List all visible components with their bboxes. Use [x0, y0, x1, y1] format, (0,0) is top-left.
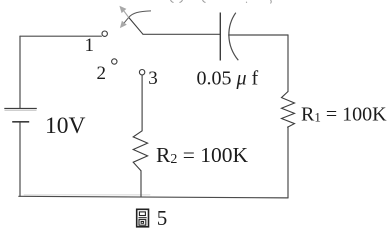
wire left vertical top [19, 36, 21, 108]
svg-text:5: 5 [157, 206, 168, 230]
switch rotation arc [124, 11, 151, 23]
battery B1 long plate (+) [4, 108, 37, 110]
terminal 3 [139, 70, 144, 75]
wire terminal3 down [141, 75, 143, 131]
resistor R1 zigzag [282, 92, 295, 128]
caption figure glyph (CJK tu) [137, 209, 149, 227]
wire bottom horizontal [19, 196, 288, 198]
wire top-left horizontal [20, 35, 101, 37]
cut-off text marks at top edge [171, 0, 272, 4]
svg-text:10V: 10V [45, 113, 86, 139]
svg-text:R1 = 100K: R1 = 100K [301, 104, 387, 126]
svg-text:3: 3 [148, 68, 158, 89]
wire top-right horizontal to capacitor [143, 33, 220, 35]
wire capacitor to right corner [229, 34, 288, 36]
wire left vertical bottom [19, 122, 21, 197]
resistor R2 zigzag [133, 131, 147, 171]
wire below R2 [140, 171, 142, 197]
svg-text:2: 2 [97, 63, 107, 84]
switch motion arrow lower head [120, 21, 127, 28]
svg-text:1: 1 [85, 35, 95, 56]
wire right vertical lower [287, 127, 289, 197]
terminal 1 [102, 31, 107, 36]
battery B1 short plate (-) [12, 121, 29, 123]
svg-text:0.05 μ f: 0.05 μ f [197, 67, 259, 89]
switch motion arrow upper head [119, 6, 128, 28]
wire right vertical upper [287, 35, 289, 92]
capacitor C1 left plate [219, 13, 221, 61]
svg-text:R2 = 100K: R2 = 100K [156, 143, 248, 167]
switch arm [129, 17, 143, 34]
capacitor C1 curved plate [229, 13, 238, 61]
terminal 2 [112, 59, 117, 64]
